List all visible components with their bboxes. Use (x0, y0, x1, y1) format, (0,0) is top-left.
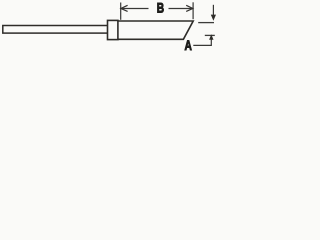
svg-text:A: A (185, 37, 193, 53)
svg-text:B: B (157, 0, 164, 16)
